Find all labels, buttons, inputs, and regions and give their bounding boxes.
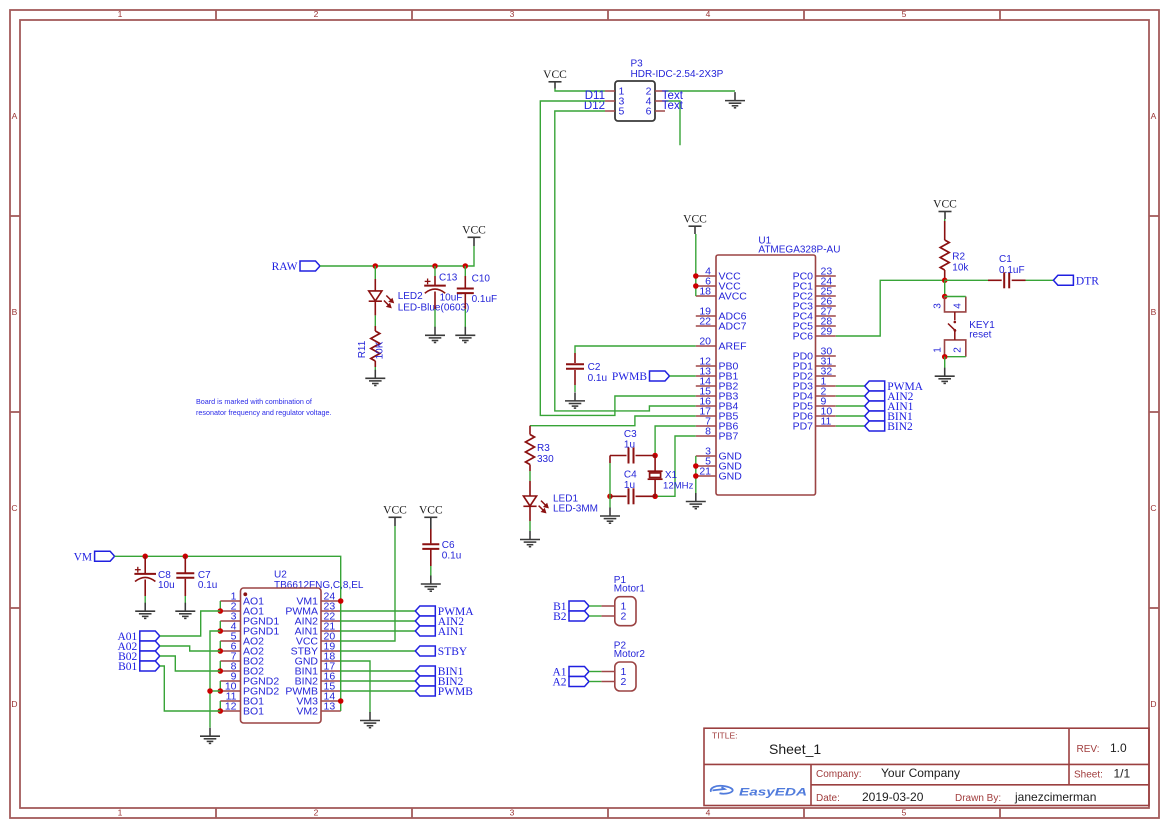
U1 pin 30 PD0 [816,355,836,357]
junction U1 pin6 [693,283,699,289]
U2 pin 15 PWMB [321,690,341,692]
junction C13 [432,263,438,269]
wire C10 to ground [464,309,466,327]
U1 pin 8 PB7 [696,435,716,437]
junction U2 pin14 [338,698,344,704]
polarized capacitor C13 10uF [424,279,446,294]
svg-text:Motor1: Motor1 [614,584,646,595]
junction U1 pin21 [693,473,699,479]
net flag B2 [553,611,589,623]
svg-text:B: B [1151,307,1157,317]
junction U2 pin24 [338,598,344,604]
U2 pin 19 STBY [321,650,341,652]
ground C8 [135,603,155,619]
wire AREF to C2 [575,346,696,353]
svg-text:C3: C3 [624,429,637,440]
wire KEY1 pins 3-4 [945,296,966,298]
net flag BIN1 [415,666,463,678]
svg-text:0.1u: 0.1u [588,373,607,384]
U1 pin 11 PD7 [816,425,836,427]
wire to C10 [464,266,466,276]
net flag BIN1 [865,411,913,423]
svg-text:VCC: VCC [462,225,486,237]
U1 pin 31 PD1 [816,365,836,367]
net flag B02 [118,651,160,663]
U2 pin 14 VM3 [321,700,341,702]
capacitor C4 [629,488,634,504]
svg-text:B2: B2 [553,611,567,623]
wire A2 to P2 [589,681,601,683]
wire U2 to STBY [341,650,416,652]
junction X1 bottom [652,494,658,500]
capacitor C2 0.1u [574,353,576,363]
svg-text:PC6: PC6 [793,331,814,343]
junction C4 left [607,494,613,500]
U1 pin 4 VCC [696,275,716,277]
U2 pin 10 PGND2 [220,690,240,692]
svg-text:1: 1 [933,347,944,353]
capacitor C6 [422,544,439,549]
svg-text:10k: 10k [952,263,969,274]
svg-text:2: 2 [621,676,627,688]
ground R11 [365,370,385,386]
junction U2 left 711 [218,708,224,714]
wire C13 to ground [434,309,436,327]
U1 pin 13 PB1 [696,375,716,377]
wire U2 pin pair [219,601,221,611]
wire reset node to C1 [945,279,988,281]
svg-text:R11: R11 [357,340,368,358]
U2 pin 3 PGND1 [220,620,240,622]
wire B02 to U2 [160,656,221,671]
svg-text:PWMB: PWMB [612,371,647,383]
capacitor C3 1u [610,455,627,457]
wire U2 GND18 [341,661,370,713]
svg-text:B: B [12,307,18,317]
U2 pin 9 PGND2 [220,680,240,682]
svg-text:3: 3 [510,808,515,818]
wire reset node to KEY1 [944,280,946,296]
svg-text:RAW: RAW [272,261,298,273]
net flag PWMB [415,686,473,698]
U1 pin 14 PB2 [696,385,716,387]
svg-text:janezcimerman: janezcimerman [1014,790,1096,804]
svg-text:6: 6 [646,106,652,118]
junction PGND [207,688,213,694]
U2 pin 16 BIN2 [321,680,341,682]
U1 pin 2 PD4 [816,395,836,397]
svg-text:8: 8 [705,426,711,438]
junction C7 [183,554,189,560]
svg-text:Drawn By:: Drawn By: [955,793,1001,804]
svg-text:1: 1 [118,9,123,19]
power flag VCC (RAW rail) [462,225,486,247]
U1 pin 3 GND [696,455,716,457]
svg-text:D12: D12 [584,100,605,112]
power flag VCC (C6) [419,505,443,530]
U1 pin 16 PB4 [696,405,716,407]
ground C10 [455,327,475,343]
ground X1 [600,508,620,524]
wire P3 pin4 stub [665,101,680,145]
net flag PWMA [865,381,924,393]
wire U2 pin pair [219,621,221,631]
U1 pin 18 AVCC [696,295,716,297]
svg-text:0.1u: 0.1u [198,580,217,591]
U1 pin 27 PC4 [816,315,836,317]
wire VCC to P3 pin1 [555,89,605,92]
net flag A01 [117,631,159,643]
wire U2 pin pair [219,641,221,651]
wire U2 to PWMB [341,690,416,692]
U2 pin 22 AIN2 [321,620,341,622]
wire VCC to U2 pin20 [341,526,395,641]
svg-text:U2: U2 [274,570,287,581]
U2 pin 13 VM2 [321,710,341,712]
wire R11 to ground [374,367,376,371]
wire VCC to U1 power pins [695,234,697,296]
resistor R11 body [371,331,380,361]
svg-text:2: 2 [314,9,319,19]
svg-text:21: 21 [699,466,711,478]
wire C7 to ground [184,596,186,603]
polarized capacitor C8 [134,567,156,582]
wire RAW rail [320,246,474,266]
wire PB7 to X1 [655,436,696,496]
svg-text:12MHz: 12MHz [663,481,694,492]
svg-text:1.0: 1.0 [1110,741,1127,755]
wire A02 to U2 [160,646,221,651]
svg-text:C13: C13 [439,273,458,284]
net flag B01 [118,661,160,673]
svg-text:22: 22 [699,316,711,328]
svg-text:AVCC: AVCC [719,291,748,303]
ground PGND [200,728,220,744]
svg-text:5: 5 [902,9,907,19]
svg-text:A: A [1151,111,1157,121]
U2 pin 18 GND [321,660,341,662]
net flag A02 [117,641,159,653]
net flag AIN1 [415,626,464,638]
capacitor C2 [566,364,584,369]
P3 pin 4 [655,100,665,102]
svg-text:3: 3 [510,9,515,19]
capacitor C10 0.1uF [457,289,474,294]
resistor R2 body [940,240,949,270]
wire C3 left to C4 left [609,463,611,496]
svg-text:ADC7: ADC7 [719,321,747,333]
net flag A1 [552,667,589,679]
wire VM rail [115,556,341,711]
U2 pin 7 BO2 [220,660,240,662]
wire PGND to ground [210,631,220,728]
U1 pin 10 PD6 [816,415,836,417]
svg-text:D: D [1150,699,1156,709]
capacitor C3 [629,448,634,464]
U2 pin 2 AO1 [220,610,240,612]
svg-text:29: 29 [821,326,833,338]
svg-text:BO1: BO1 [243,706,264,718]
svg-text:VM2: VM2 [296,706,318,718]
wire D11 to U1 PB3 [540,101,696,415]
ground KEY1 [935,368,955,384]
net flag AIN1 [865,401,914,413]
svg-text:LED2: LED2 [398,291,423,302]
svg-text:ATMEGA328P-AU: ATMEGA328P-AU [758,245,840,256]
U1 pin 5 GND [696,465,716,467]
wire U2 to BIN1 [341,670,416,672]
svg-text:C: C [1150,503,1156,513]
wire PD to BIN1 [836,415,865,417]
wire C2 to ground [574,385,576,392]
svg-text:18: 18 [699,286,711,298]
svg-text:LED-3MM: LED-3MM [553,504,598,515]
svg-text:1/1: 1/1 [1114,767,1131,781]
svg-text:REV:: REV: [1077,744,1100,755]
svg-text:Motor2: Motor2 [614,649,646,660]
wire U2 to AIN1 [341,630,416,632]
junction LED2 [373,263,379,269]
svg-text:4: 4 [706,9,711,19]
svg-text:Date:: Date: [816,793,840,804]
svg-text:0.1uF: 0.1uF [472,294,498,305]
ground C2 [565,392,585,408]
U2 pin 8 BO2 [220,670,240,672]
svg-text:VCC: VCC [933,199,957,211]
svg-text:Sheet:: Sheet: [1074,770,1103,781]
power flag VCC (U1) [683,213,707,234]
svg-text:VCC: VCC [419,505,443,517]
wire U2 to BIN2 [341,680,416,682]
U2 pin 17 BIN1 [321,670,341,672]
U1 pin 25 PC2 [816,295,836,297]
svg-text:LED-Blue(0603): LED-Blue(0603) [398,303,470,314]
ground U2 GND [360,712,380,728]
svg-text:330: 330 [537,454,554,465]
ground C7 [175,603,195,619]
EasyEDA logo [711,786,733,794]
U2 pin 11 BO1 [220,700,240,702]
wire A1 to P2 [589,671,601,673]
svg-text:GND: GND [719,471,743,483]
wire P3 pin2 to ground [665,90,735,92]
svg-text:EasyEDA: EasyEDA [739,787,807,799]
wire C1 to DTR [1026,279,1054,281]
svg-text:2: 2 [953,347,964,353]
wire PB6 to X1 [655,426,696,456]
svg-text:X1: X1 [665,470,678,481]
P1 pin 2 [601,615,614,617]
wire B1 to P1 [589,605,601,607]
resistor R3 330 [529,426,531,435]
net flag AIN2 [865,391,914,403]
svg-text:A2: A2 [552,677,566,689]
junction KEY1 pin3 [942,294,948,300]
U1 pin 22 ADC7 [696,325,716,327]
U1 pin 17 PB5 [696,415,716,417]
U1 pin 21 GND [696,475,716,477]
title block [704,728,1149,805]
wire PB5 to R3 [530,416,696,426]
svg-text:Text: Text [662,100,684,112]
svg-text:STBY: STBY [438,646,468,658]
junction U2 left 611 [218,608,224,614]
svg-text:5: 5 [902,808,907,818]
P3 pin 1 [605,90,615,92]
svg-text:1u: 1u [624,440,635,451]
wire KEY1 pins 1-2 [945,356,966,358]
wire PC6 to reset node [836,280,945,336]
svg-text:AREF: AREF [719,341,747,353]
U1 pin 6 VCC [696,285,716,287]
svg-text:11: 11 [821,416,832,428]
wire to LED2 [374,266,376,279]
U2 pin 23 PWMA [321,610,341,612]
capacitor C1 [1004,272,1009,288]
svg-text:R2: R2 [952,252,965,263]
U2 pin 5 AO2 [220,640,240,642]
U1 pin 28 PC5 [816,325,836,327]
resistor R11 10K [374,326,376,331]
svg-text:C10: C10 [472,274,491,285]
U2 pin 24 VM1 [321,600,341,602]
wire KEY1 to ground [944,357,946,368]
svg-text:VCC: VCC [543,69,567,81]
wire LED1 to ground [529,521,531,531]
wire U2 to AIN2 [341,620,416,622]
P3 pin 2 [655,90,665,92]
P3 pin 6 [655,110,665,112]
svg-text:Your Company: Your Company [881,766,960,780]
svg-text:4: 4 [706,808,711,818]
net flag B1 [553,601,589,613]
svg-text:BIN2: BIN2 [887,421,913,433]
P2 pin 2 [601,681,614,683]
junction C8 [142,554,148,560]
capacitor C6 0.1u [430,529,432,543]
wire LED2 to R11 [374,315,376,326]
wire B01 to U2 [160,666,221,711]
net flag PWMA [415,606,474,618]
U2 pin 1 AO1 [220,600,240,602]
wire to crystal ground [609,496,611,507]
U1 pin 20 AREF [696,345,716,347]
svg-text:10u: 10u [158,580,175,591]
junction U2 left 651 [218,648,224,654]
svg-text:PB7: PB7 [719,431,739,443]
svg-text:VM: VM [74,551,93,563]
net flag STBY [415,646,468,658]
LED LED1 symbol [523,496,536,506]
wire R3 to LED1 [529,471,531,481]
wire PD to PWMA [836,385,865,387]
net flag VM [74,551,115,563]
U1 pin 24 PC1 [816,285,836,287]
capacitor C4 1u [610,495,627,497]
junction X1 top [652,453,658,459]
svg-text:C: C [11,503,17,513]
junction KEY1 pin1 [942,354,948,360]
net flag PWMB [612,371,670,383]
svg-text:1: 1 [118,808,123,818]
svg-text:Sheet_1: Sheet_1 [769,741,821,757]
U1 pin 19 ADC6 [696,315,716,317]
svg-text:2: 2 [314,808,319,818]
svg-text:C2: C2 [588,362,601,373]
svg-text:resonator frequency and regula: resonator frequency and regulator voltag… [196,408,331,417]
svg-text:10K: 10K [375,341,386,359]
wire to C13 [434,266,436,276]
power flag VCC (R2) [933,199,957,219]
ground C13 [425,327,445,343]
P1 pin 1 [601,605,614,607]
net flag A2 [552,677,589,689]
wire PD to BIN2 [836,425,865,427]
U1 pin 23 PC0 [816,275,836,277]
svg-text:0.1u: 0.1u [442,551,461,562]
net flag AIN2 [415,616,464,628]
wire U2 pin pair [219,681,221,691]
junction U2 left 631 [218,628,224,634]
wire PWMB to PB1 [670,375,696,377]
U1 pin 7 PB6 [696,425,716,427]
capacitor C1 0.1uF [988,279,1002,281]
svg-text:TITLE:: TITLE: [712,731,738,741]
svg-text:reset: reset [969,330,991,341]
svg-text:AIN1: AIN1 [438,626,464,638]
wire B2 to P1 [589,615,601,617]
P3 pin 3 [605,100,615,102]
U1 pin 15 PB3 [696,395,716,397]
wire U2 to PWMA [341,610,416,612]
wire D12 to U1 PB4 [555,111,696,411]
U1 pin 9 PD5 [816,405,836,407]
wire C8 to ground [144,596,146,603]
U2 pin 21 AIN1 [321,630,341,632]
net flag DTR [1053,275,1099,287]
svg-text:10uF: 10uF [440,293,463,304]
LED LED2 symbol [369,291,382,301]
wire A01 to U2 [160,611,221,636]
svg-text:4: 4 [953,303,964,309]
svg-text:Board is marked with combinati: Board is marked with combination of [196,397,312,406]
svg-text:20: 20 [699,336,711,348]
U1 pin 29 PC6 [816,335,836,337]
svg-text:Company:: Company: [816,769,862,780]
svg-text:PD7: PD7 [793,421,814,433]
svg-text:12: 12 [225,701,237,713]
capacitor C7 0.1u [184,556,186,572]
svg-text:C6: C6 [442,540,455,551]
svg-text:R3: R3 [537,443,550,454]
wire PD to AIN2 [836,395,865,397]
svg-text:13: 13 [324,701,336,713]
ground C6 [421,576,441,592]
junction U1 pin5 [693,463,699,469]
U2 pin 20 VCC [321,640,341,642]
U1 pin 1 PD3 [816,385,836,387]
svg-text:0.1uF: 0.1uF [999,265,1025,276]
svg-text:DTR: DTR [1076,275,1099,287]
svg-text:VCC: VCC [683,213,707,225]
U2 pin 4 PGND1 [220,630,240,632]
net flag RAW [272,261,320,273]
junction C10 [463,263,469,269]
wire U2 pin pair [219,701,221,711]
wire C6 to ground [430,566,432,576]
junction U2 left 671 [218,668,224,674]
svg-text:2019-03-20: 2019-03-20 [862,790,924,804]
